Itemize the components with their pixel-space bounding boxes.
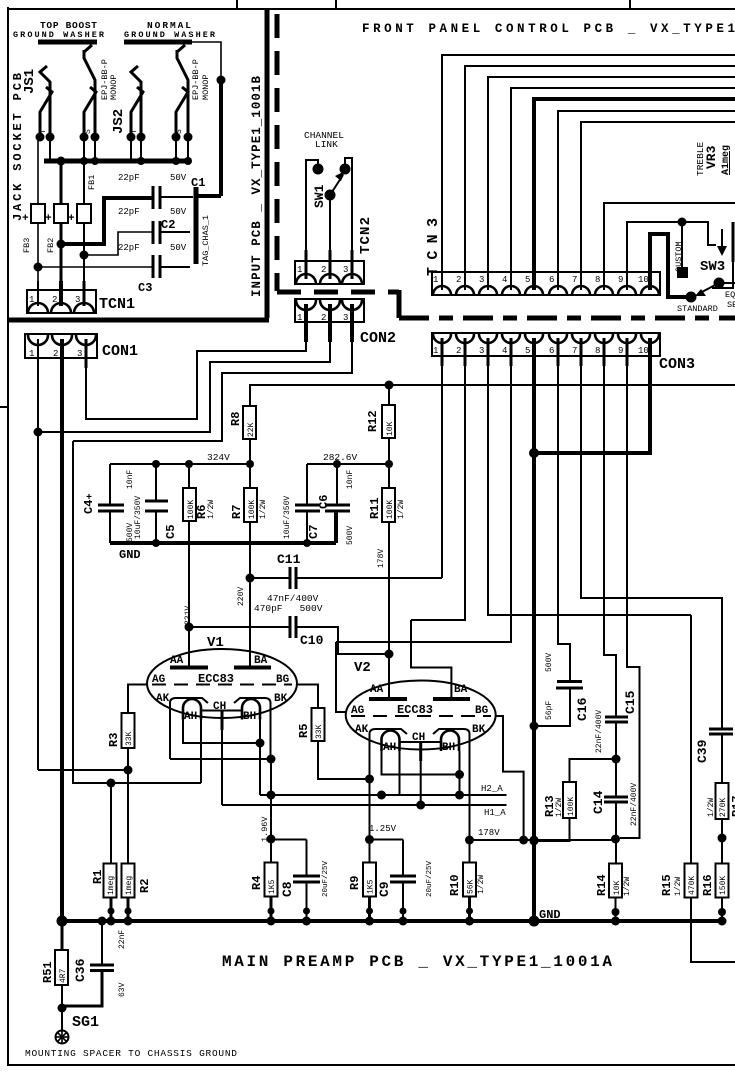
switch SW3 common dot — [714, 278, 725, 289]
V2 BH right leg — [459, 751, 461, 795]
contact dots row — [36, 133, 45, 142]
svg-text:MONOP: MONOP — [201, 74, 211, 100]
V1 cathode cup left — [170, 698, 208, 732]
svg-text:R2: R2 — [138, 879, 152, 893]
svg-text:C39: C39 — [695, 739, 710, 763]
ferrite FB2 box — [54, 204, 68, 223]
svg-text:AK: AK — [156, 693, 170, 705]
wire TCN3 pin7 nest — [581, 122, 735, 272]
svg-text:470pF 500V: 470pF 500V — [254, 603, 323, 614]
contact CUSTOM square — [677, 267, 688, 278]
wire R8 bottom — [249, 439, 251, 464]
svg-text:R15: R15 — [660, 874, 674, 896]
capacitor C4 — [98, 504, 124, 507]
svg-text:SW3: SW3 — [700, 259, 725, 275]
svg-text:22nF/400V: 22nF/400V — [595, 710, 604, 753]
svg-text:3: 3 — [343, 265, 348, 275]
V1 anode BA plate — [234, 666, 271, 670]
svg-text:CON3: CON3 — [659, 356, 695, 373]
wire C6 top — [336, 464, 338, 504]
svg-text:2: 2 — [53, 349, 58, 359]
svg-text:1: 1 — [29, 349, 34, 359]
CON3 pin arcs — [433, 334, 451, 343]
wire R4 column — [270, 759, 272, 863]
V2 anode BA wire — [411, 620, 451, 699]
connector TCN3 box — [432, 272, 660, 295]
svg-text:22pF: 22pF — [118, 243, 140, 253]
V2 anode AA wire — [388, 654, 390, 699]
svg-text:56K: 56K — [467, 879, 476, 894]
V1 heater bar — [200, 710, 242, 712]
node stair2 join — [34, 428, 43, 437]
node R13 gnd — [530, 837, 539, 846]
V2 cathode cup right — [433, 729, 470, 763]
node R10 top — [465, 836, 474, 845]
wire stem1 jack to FB3 — [37, 137, 39, 204]
svg-text:33K: 33K — [125, 731, 134, 746]
border left — [7, 7, 9, 1065]
tube V1 envelope — [147, 649, 297, 718]
svg-text:R3: R3 — [107, 733, 121, 747]
node R12 net — [385, 381, 394, 390]
gnd rail — [62, 919, 725, 923]
svg-text:+: + — [45, 213, 52, 225]
svg-text:4: 4 — [502, 346, 507, 356]
wire V1 AG to R3 — [128, 685, 147, 714]
wire C9 bottom — [402, 882, 404, 921]
svg-text:150K: 150K — [719, 876, 728, 895]
svg-text:8: 8 — [595, 346, 600, 356]
svg-text:MOUNTING SPACER TO CHASSIS GRO: MOUNTING SPACER TO CHASSIS GROUND — [25, 1048, 237, 1059]
wire C5 top — [155, 464, 157, 500]
svg-text:7: 7 — [572, 346, 577, 356]
wire custom contact drop — [681, 222, 683, 268]
svg-text:100K: 100K — [248, 500, 257, 519]
svg-text:500V: 500V — [545, 653, 554, 672]
wire R1 top — [110, 783, 112, 864]
node V2 jog — [455, 770, 464, 779]
wire bus to FB1 — [83, 161, 85, 204]
wire CON3 pin1 down — [441, 356, 443, 578]
TCN3 — [425, 55, 735, 297]
INPUTBOUND — [7, 10, 735, 320]
svg-text:R8: R8 — [229, 412, 243, 426]
svg-text:270K: 270K — [719, 798, 728, 817]
svg-text:GND: GND — [539, 908, 561, 922]
V2 heater BH arch — [441, 731, 459, 752]
svg-text:C6: C6 — [317, 495, 331, 509]
svg-text:1/2W: 1/2W — [623, 877, 632, 896]
svg-text:AH: AH — [383, 742, 396, 754]
CAPS123 — [22, 137, 221, 295]
svg-text:50V: 50V — [170, 173, 187, 183]
svg-text:ECC83: ECC83 — [397, 703, 433, 717]
capacitor C6 — [325, 504, 350, 507]
wire C1 right to tag bar — [160, 196, 193, 198]
svg-text:R5: R5 — [297, 724, 311, 738]
V1 heater BH arch — [242, 699, 260, 720]
wire tag to washer stub — [196, 194, 221, 198]
input pcb boundary corner vertical — [397, 290, 402, 318]
svg-text:3: 3 — [77, 349, 82, 359]
svg-text:C11: C11 — [277, 552, 301, 567]
wire R12 bottom — [388, 438, 390, 464]
switch SW1 common dot — [325, 190, 336, 201]
svg-text:R1: R1 — [91, 870, 105, 884]
svg-text:33K: 33K — [315, 724, 324, 739]
svg-text:R14: R14 — [595, 874, 609, 896]
wire cathode 759 — [170, 758, 271, 760]
TCN2 pin stubs — [305, 250, 308, 279]
TCN1 pin stubs — [37, 281, 39, 306]
input pcb boundary dashed horiz lower — [399, 316, 735, 321]
svg-text:100K: 100K — [567, 797, 576, 816]
V2 anode AA plate — [369, 697, 407, 701]
wire R5 bottom to V2 cathode — [318, 741, 370, 779]
jack JS2a tip contact tall — [84, 50, 95, 137]
wire R3 bottom — [127, 748, 129, 864]
node C14 R14 — [611, 835, 620, 844]
svg-text:FB3: FB3 — [22, 238, 32, 253]
V2 AH left leg — [382, 751, 460, 775]
tick top x237 — [236, 0, 238, 9]
wire C9 top — [402, 840, 404, 876]
svg-text:10uF/350V: 10uF/350V — [134, 496, 143, 539]
svg-text:50V: 50V — [170, 243, 187, 253]
wire C10 left — [189, 626, 289, 628]
CON2 pin stubs — [304, 304, 308, 342]
svg-text:AK: AK — [355, 724, 369, 736]
node R51 C36 — [58, 1004, 67, 1013]
svg-text:SE: SE — [727, 300, 735, 310]
svg-text:C3: C3 — [138, 281, 152, 295]
svg-text:SG1: SG1 — [72, 1014, 99, 1031]
wire bus to FB2 thick — [60, 161, 63, 204]
svg-text:FB2: FB2 — [46, 238, 56, 253]
wire TCN3 pin2 nest — [465, 66, 735, 272]
resistor R11 — [382, 488, 395, 522]
V2 cathode cup left — [370, 729, 408, 763]
wire stair CON2p1 to CON1p3 — [86, 342, 306, 419]
svg-text:6: 6 — [549, 346, 554, 356]
pot VR3 wiper arrow — [721, 229, 723, 247]
svg-text:1: 1 — [297, 265, 302, 275]
wire V2 BG to R14 node — [496, 716, 524, 840]
svg-text:BA: BA — [454, 684, 468, 696]
wire C2 feed dogleg — [84, 232, 152, 255]
MIDRAILS — [82, 381, 406, 696]
svg-text:1.25V: 1.25V — [369, 824, 397, 834]
svg-text:3: 3 — [479, 346, 484, 356]
V2 CH tick — [419, 742, 422, 761]
node R17 R16 — [718, 834, 727, 843]
V1 AH left leg — [183, 720, 260, 744]
resistor R9 — [363, 863, 376, 897]
wire CON3 pin4 down — [336, 356, 511, 642]
capacitor C8 — [293, 875, 320, 878]
wire C3 right — [160, 266, 190, 268]
V1 grid dashed — [152, 684, 292, 686]
wire R14 bottom — [615, 898, 617, 922]
wire TCN3 pin9 to custom node — [627, 222, 682, 272]
node TCN1 pin1 tap — [34, 263, 43, 272]
capacitor C3 — [152, 255, 155, 278]
wire 840 horizontal — [470, 839, 617, 841]
TUBES — [107, 620, 524, 864]
wire CON3 pin8 down to C15 — [604, 356, 616, 717]
svg-text:+: + — [22, 213, 29, 225]
capacitor C5 — [145, 500, 168, 503]
svg-text:1/2W: 1/2W — [397, 500, 406, 519]
capacitor C14 — [604, 796, 628, 799]
TCN1 pin arcs — [28, 303, 48, 313]
svg-text:1/2W: 1/2W — [477, 875, 486, 894]
svg-text:V2: V2 — [354, 660, 371, 676]
svg-text:R7: R7 — [230, 505, 244, 519]
CON1 pin arcs — [28, 335, 48, 345]
node R7 net 220V — [246, 574, 255, 583]
switch SW1 wire pin2 — [329, 196, 331, 250]
wire CON3 pin3 down — [488, 356, 691, 615]
node C16 gnd — [530, 722, 539, 731]
connector TCN1 box — [27, 290, 96, 313]
resistor R13 — [563, 782, 576, 818]
wire R13 top — [570, 759, 617, 782]
TCN1AREA — [27, 281, 135, 313]
svg-text:C14: C14 — [591, 790, 606, 814]
node cathode R4 — [267, 755, 276, 764]
jack ground bus — [44, 159, 190, 164]
wire C10 right dogleg — [296, 627, 389, 654]
svg-text:9: 9 — [618, 275, 623, 285]
svg-text:LINK: LINK — [315, 139, 338, 150]
svg-text:MONOP: MONOP — [109, 74, 119, 100]
wire washer to tag bus — [192, 42, 221, 78]
svg-text:470K: 470K — [688, 876, 697, 895]
wire pin1 to R3 bottom — [38, 769, 128, 771]
wire C36 bottom — [62, 971, 102, 1007]
spacer SG1 symbol — [56, 1031, 69, 1044]
svg-text:220V: 220V — [237, 587, 246, 606]
svg-text:22pF: 22pF — [118, 207, 140, 217]
wire C11 left — [250, 577, 289, 579]
svg-text:V1: V1 — [207, 635, 224, 651]
wire R15 column — [690, 615, 692, 864]
svg-text:1/2W: 1/2W — [555, 798, 564, 817]
wire C7 top — [306, 464, 308, 504]
resistor R4 — [265, 863, 278, 897]
svg-text:C5: C5 — [164, 525, 178, 539]
svg-text:SW1: SW1 — [312, 184, 327, 208]
border bottom — [7, 1064, 735, 1066]
wire R7 top — [249, 464, 251, 488]
svg-text:500V: 500V — [346, 526, 355, 545]
wire pin4 to V2 grid — [336, 642, 346, 712]
svg-text:C36: C36 — [73, 958, 88, 982]
svg-text:178V: 178V — [478, 828, 500, 838]
svg-text:CON2: CON2 — [360, 330, 396, 347]
input pcb boundary solid vertical — [265, 10, 270, 318]
node gnd cross — [530, 836, 539, 845]
svg-text:GROUND WASHER: GROUND WASHER — [124, 30, 216, 40]
jack JS1 shunt contact — [40, 87, 52, 137]
TCN3 pin stubs — [441, 262, 443, 290]
wire C1 feed thick dogleg — [61, 198, 152, 244]
V2 AH right leg — [399, 751, 401, 795]
svg-text:10K: 10K — [386, 421, 395, 436]
capacitor C15 — [605, 716, 628, 719]
tick top x336 — [335, 0, 337, 9]
pot VR3 end wire — [712, 262, 733, 288]
wire R12 top — [388, 385, 390, 405]
svg-text:1/2W: 1/2W — [674, 877, 683, 896]
wire R17 bottom — [721, 819, 723, 864]
wire CON1 pin2 long down thick — [60, 358, 64, 921]
wire R51 bottom — [61, 985, 63, 1030]
wire R9 C9 top link — [370, 839, 404, 841]
node jog BH — [256, 739, 265, 748]
wire H2_A — [260, 794, 507, 796]
wire H1_A — [222, 804, 507, 806]
bus junction dots — [57, 157, 66, 166]
svg-text:C15: C15 — [623, 690, 638, 714]
V1 cup left leg down — [169, 732, 171, 759]
wire C16 bottom to gnd — [534, 688, 570, 726]
svg-text:9: 9 — [618, 346, 623, 356]
node pin10 to gnd — [529, 448, 539, 458]
switch SW1 contact dot left — [313, 164, 324, 175]
rail 282.6V — [307, 463, 389, 465]
capacitor C36 — [90, 964, 114, 967]
wire FB1 to TCN1 pin3 — [83, 223, 85, 290]
svg-text:BH: BH — [243, 711, 256, 723]
jack JS2a shunt contact — [84, 87, 96, 137]
stems dots to bus — [49, 137, 51, 161]
CON3 — [249, 333, 735, 921]
wire R6 bottom to anode — [188, 521, 190, 666]
svg-text:H1_A: H1_A — [484, 808, 506, 818]
wire C8 bottom — [306, 882, 308, 921]
svg-text:10uF/350V: 10uF/350V — [283, 496, 292, 539]
svg-text:1: 1 — [433, 346, 438, 356]
svg-text:C2: C2 — [161, 218, 175, 232]
node FB2 tap — [57, 240, 66, 249]
svg-text:2: 2 — [456, 275, 461, 285]
svg-text:TCN2: TCN2 — [358, 217, 374, 254]
svg-text:10nF: 10nF — [346, 470, 355, 489]
svg-text:100K: 100K — [386, 500, 395, 519]
svg-text:56pF: 56pF — [545, 701, 554, 720]
jack JS1 tip contact — [40, 66, 50, 98]
svg-text:1K5: 1K5 — [268, 879, 277, 894]
wire R4 C8 top link — [271, 839, 307, 841]
node custom top — [678, 218, 687, 227]
wire C11 right to CON3 pin1 — [296, 577, 442, 579]
wire C4 top — [109, 464, 111, 504]
node 523 join — [519, 836, 528, 845]
rail 324V — [110, 463, 250, 465]
svg-text:C16: C16 — [575, 697, 590, 721]
connector TCN2 box — [295, 261, 364, 284]
svg-text:C7: C7 — [307, 525, 321, 539]
H2_A dots — [267, 791, 276, 800]
node washer feed — [217, 76, 226, 85]
V2 grid dashed — [351, 715, 491, 717]
svg-text:TAG_CHAS_1: TAG_CHAS_1 — [201, 215, 211, 266]
resistor R51 — [55, 950, 68, 985]
svg-text:1: 1 — [29, 295, 34, 305]
switch SW3 lever — [700, 283, 719, 293]
V2 anode BA plate — [433, 697, 470, 701]
svg-text:178V: 178V — [377, 549, 386, 568]
TCN2SW1 — [295, 130, 396, 347]
wire R1 bottom — [110, 898, 113, 922]
svg-text:2: 2 — [321, 265, 326, 275]
svg-text:10: 10 — [638, 346, 649, 356]
svg-text:10nF: 10nF — [126, 470, 135, 489]
wire CON3 pin2 down — [411, 356, 465, 620]
svg-text:A1meg: A1meg — [721, 145, 732, 175]
V2 CH stem — [420, 761, 422, 805]
wire C3 feed — [38, 266, 152, 268]
svg-text:R17: R17 — [730, 795, 735, 817]
wire V1 BG to R5 — [297, 685, 318, 709]
jack JS2b shunt contact — [131, 87, 143, 137]
border top — [7, 8, 735, 10]
wire TCN3 pin1 nest — [442, 55, 735, 272]
svg-text:3: 3 — [479, 275, 484, 285]
resistor R17 — [716, 783, 729, 819]
wire TCN3 pin4 nest — [511, 88, 735, 272]
resistor R16 — [716, 864, 729, 898]
svg-text:2: 2 — [52, 295, 57, 305]
svg-text:7: 7 — [572, 275, 577, 285]
gnd bus — [110, 541, 336, 545]
wire R9 bottom — [368, 897, 371, 922]
jack JS2c shunt contact — [176, 87, 188, 137]
wire TCN3 pin10 to standard thick — [650, 234, 690, 297]
CON1STAIR — [25, 334, 352, 921]
V1 CH tick — [221, 711, 224, 730]
node R6 net C10 — [185, 623, 194, 632]
wire C2 right — [160, 231, 190, 233]
wire R16 bottom — [721, 898, 723, 922]
wire long net below CON3 — [249, 384, 735, 386]
svg-text:STANDARD: STANDARD — [677, 304, 718, 314]
svg-text:AA: AA — [170, 655, 184, 667]
wire C8 top — [306, 840, 308, 876]
svg-text:R10: R10 — [448, 874, 462, 896]
svg-text:63V: 63V — [118, 982, 127, 997]
wire R15 bottom crosses rail — [691, 898, 735, 963]
node R9 C9 — [365, 835, 374, 844]
wire stair CON2p3 — [73, 342, 352, 441]
wire CON3 pin9 down to R14 node — [620, 356, 640, 838]
capacitor C7 — [295, 504, 320, 507]
svg-text:50V: 50V — [170, 207, 187, 217]
wire SW3 common right — [719, 282, 735, 284]
svg-text:+: + — [86, 493, 92, 504]
wire FB3 to TCN1 pin1 — [37, 223, 39, 290]
ferrite FB3 box — [31, 204, 45, 223]
V1 BH right leg — [259, 720, 261, 796]
svg-text:3: 3 — [343, 313, 348, 323]
C10C11 — [184, 552, 442, 712]
resistor R2 — [122, 864, 135, 898]
svg-text:R4: R4 — [250, 876, 264, 890]
contact STANDARD dot — [686, 292, 697, 303]
wire custom node to pot — [682, 222, 716, 245]
